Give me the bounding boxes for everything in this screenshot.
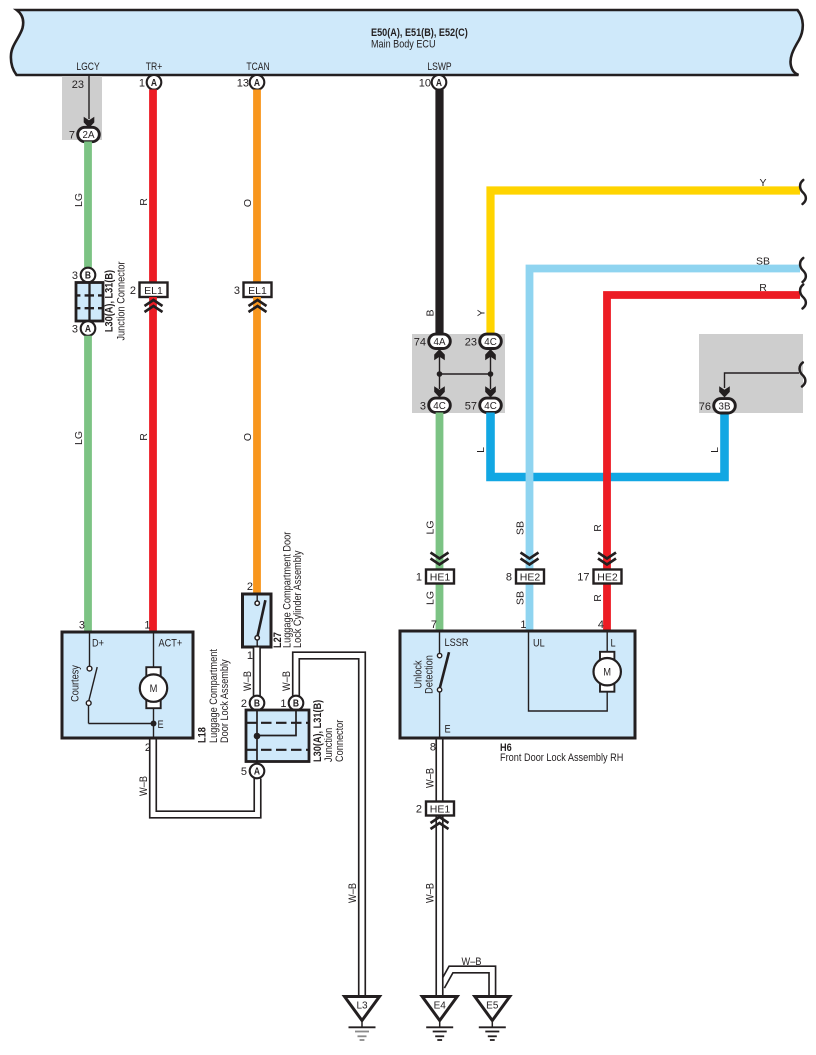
svg-text:23: 23 <box>72 79 84 91</box>
wire R upper <box>149 90 157 284</box>
component box L18 <box>62 632 193 738</box>
stems and crossbar <box>440 355 491 389</box>
svg-text:1: 1 <box>144 620 150 632</box>
svg-text:L: L <box>611 638 616 650</box>
connector EL1 red <box>140 283 168 298</box>
svg-text:2: 2 <box>130 285 136 297</box>
connector oval 3B <box>714 399 736 413</box>
ECU banner Main Body ECU <box>11 10 803 75</box>
chevrons HE2 <box>521 553 539 565</box>
shield gray box LGCY <box>62 76 102 140</box>
svg-text:R: R <box>592 594 604 602</box>
svg-text:LG: LG <box>425 520 437 534</box>
svg-text:2A: 2A <box>83 130 95 141</box>
svg-text:SB: SB <box>515 591 527 605</box>
svg-text:W–B: W–B <box>425 883 437 903</box>
svg-text:B: B <box>424 309 436 316</box>
arrow down LGCY <box>84 117 95 128</box>
connector circle B <box>81 268 96 283</box>
svg-text:TR+: TR+ <box>146 61 163 73</box>
svg-text:W–B: W–B <box>425 768 437 788</box>
svg-text:1: 1 <box>280 698 286 710</box>
arrow down 3B <box>719 386 730 397</box>
svg-text:Detection: Detection <box>424 655 436 694</box>
svg-text:Y: Y <box>475 309 487 316</box>
ground E5 <box>475 997 510 1041</box>
svg-text:74: 74 <box>414 336 426 348</box>
arrow up left <box>434 349 445 360</box>
wire O upper <box>253 90 261 284</box>
junction dot E <box>151 721 157 727</box>
break squiggle R <box>800 285 806 309</box>
svg-text:3: 3 <box>234 285 240 297</box>
wire W-B L27 to B <box>253 648 261 697</box>
svg-text:2: 2 <box>145 742 151 754</box>
svg-text:B: B <box>293 698 299 709</box>
chevrons HE1 lower <box>431 817 449 829</box>
svg-text:R: R <box>138 198 150 206</box>
connector circle A TCAN <box>250 75 265 90</box>
svg-text:5: 5 <box>241 766 247 778</box>
svg-text:4C: 4C <box>433 401 445 412</box>
svg-text:R: R <box>138 433 150 441</box>
junction dot <box>254 733 261 740</box>
svg-text:1: 1 <box>520 619 526 631</box>
shield gray box right <box>699 334 803 413</box>
svg-text:HE1: HE1 <box>430 804 451 816</box>
svg-text:8: 8 <box>430 742 436 754</box>
svg-text:B: B <box>254 698 260 709</box>
junction dot right <box>488 371 494 377</box>
connector HE2 <box>516 570 544 584</box>
svg-text:3: 3 <box>420 400 426 412</box>
svg-text:LGCY: LGCY <box>76 61 100 73</box>
connector circle B left <box>250 696 265 711</box>
svg-text:17: 17 <box>577 572 589 584</box>
svg-text:8: 8 <box>506 572 512 584</box>
svg-text:W–B: W–B <box>138 776 150 796</box>
connector circle A TR+ <box>147 75 162 90</box>
svg-text:L30(A), L31(B): L30(A), L31(B) <box>104 270 116 332</box>
connector oval 2A <box>78 127 100 141</box>
svg-text:M: M <box>603 667 611 679</box>
motor M L18 <box>140 633 167 739</box>
connector EL1 orange <box>244 283 272 298</box>
wire R lower <box>149 297 157 632</box>
svg-text:SB: SB <box>515 521 527 535</box>
svg-text:A: A <box>254 77 260 88</box>
svg-text:7: 7 <box>69 130 75 142</box>
svg-text:W–B: W–B <box>281 671 293 691</box>
chevrons HE1 <box>431 553 449 565</box>
svg-text:E4: E4 <box>434 1001 447 1012</box>
svg-text:7: 7 <box>431 619 437 631</box>
arrow down right <box>485 386 496 397</box>
svg-text:Connector: Connector <box>334 719 346 762</box>
svg-text:13: 13 <box>237 78 249 90</box>
svg-text:M: M <box>150 683 158 695</box>
connector oval 4C top right <box>480 334 502 348</box>
svg-text:L18: L18 <box>197 727 209 743</box>
svg-text:2: 2 <box>241 698 247 710</box>
svg-text:W–B: W–B <box>347 883 359 903</box>
svg-text:E5: E5 <box>486 1001 499 1012</box>
svg-text:E50(A), E51(B), E52(C): E50(A), E51(B), E52(C) <box>371 27 468 39</box>
svg-text:2: 2 <box>416 804 422 816</box>
svg-text:10: 10 <box>419 78 431 90</box>
svg-text:W–B: W–B <box>242 671 254 691</box>
svg-text:ACT+: ACT+ <box>159 638 183 650</box>
svg-text:HE2: HE2 <box>520 572 541 584</box>
chevrons EL1 orange <box>249 300 267 312</box>
connector HE2 right <box>594 570 622 584</box>
svg-text:D+: D+ <box>92 638 104 650</box>
break squiggle right box <box>800 363 806 387</box>
connector oval 4C bottom left <box>429 398 451 412</box>
svg-text:Y: Y <box>759 177 766 189</box>
wire LG upper <box>84 142 92 269</box>
junction connector L30 L31 bottom <box>246 710 309 764</box>
svg-text:Junction Connector: Junction Connector <box>116 261 128 341</box>
component box L27 lock cylinder switch <box>243 594 272 647</box>
svg-text:LSWP: LSWP <box>427 61 452 73</box>
svg-text:Front Door Lock Assembly RH: Front Door Lock Assembly RH <box>500 752 623 764</box>
arrow up right <box>485 349 496 360</box>
svg-text:A: A <box>151 77 157 88</box>
wire W-B H6 pin8 down to E4 <box>435 740 443 996</box>
chevrons EL1 red <box>145 300 163 312</box>
svg-text:O: O <box>242 199 254 207</box>
svg-text:EL1: EL1 <box>144 285 163 297</box>
break squiggle Y <box>800 180 806 204</box>
svg-text:HE2: HE2 <box>597 572 618 584</box>
svg-text:TCAN: TCAN <box>246 61 269 73</box>
component box H6 <box>400 631 635 738</box>
connector oval 4C bottom right <box>480 398 502 412</box>
switch courtesy <box>86 633 153 724</box>
svg-text:L: L <box>709 447 721 453</box>
svg-text:Door Lock Assembly: Door Lock Assembly <box>219 659 231 743</box>
svg-text:E: E <box>158 719 164 731</box>
svg-text:O: O <box>242 433 254 441</box>
junction dot left <box>437 371 443 377</box>
svg-text:SB: SB <box>756 255 770 267</box>
svg-text:Courtesy: Courtesy <box>70 664 82 702</box>
wire LG middle <box>436 413 444 632</box>
svg-text:LSSR: LSSR <box>445 637 469 649</box>
svg-text:A: A <box>254 766 260 777</box>
svg-text:23: 23 <box>465 336 477 348</box>
chevrons HE2 right <box>598 553 616 565</box>
svg-text:EL1: EL1 <box>248 285 267 297</box>
svg-text:B: B <box>85 270 91 281</box>
svg-text:R: R <box>592 524 604 532</box>
svg-text:W–B: W–B <box>462 956 482 968</box>
ground L3 <box>345 997 380 1041</box>
svg-text:Main Body ECU: Main Body ECU <box>371 39 436 51</box>
thin wire in right box <box>725 373 800 388</box>
wire W-B L18 to junction A <box>153 740 258 815</box>
arrow down left <box>434 386 445 397</box>
svg-text:4: 4 <box>598 619 604 631</box>
svg-text:76: 76 <box>699 401 711 413</box>
svg-text:UL: UL <box>533 638 545 650</box>
svg-text:4C: 4C <box>484 337 496 348</box>
wire LG lower <box>84 336 92 632</box>
svg-text:LG: LG <box>73 193 85 207</box>
svg-text:4C: 4C <box>484 401 496 412</box>
wire SB skyblue <box>530 269 801 632</box>
svg-text:Lock Cylinder Assembly: Lock Cylinder Assembly <box>292 550 304 648</box>
svg-text:LG: LG <box>73 431 85 445</box>
connector circle A bottom <box>250 764 265 779</box>
break squiggle SB <box>800 258 806 282</box>
svg-text:R: R <box>759 282 767 294</box>
svg-text:L: L <box>475 447 487 453</box>
connector oval 4A <box>429 334 451 348</box>
connector HE1 <box>426 570 454 584</box>
svg-text:1: 1 <box>247 650 253 662</box>
svg-text:3: 3 <box>72 324 78 336</box>
wire O lower <box>253 297 261 594</box>
svg-text:L3: L3 <box>356 1001 368 1012</box>
motor M H6 <box>594 633 621 692</box>
svg-text:3: 3 <box>72 270 78 282</box>
connector circle B right <box>289 696 304 711</box>
svg-text:E: E <box>445 724 451 736</box>
connector circle A LSWP <box>432 75 447 90</box>
wire W-B branch to E5 <box>442 970 493 996</box>
svg-text:A: A <box>85 323 91 334</box>
wire W-B B1 up right down to L3 <box>296 656 362 996</box>
svg-text:57: 57 <box>465 400 477 412</box>
svg-text:LG: LG <box>425 591 437 605</box>
wire L blue <box>491 413 725 478</box>
wire B black <box>435 90 443 335</box>
svg-text:2: 2 <box>247 581 253 593</box>
shield gray box middle <box>412 334 505 413</box>
wire thin LGCY <box>88 76 90 119</box>
svg-text:A: A <box>436 77 442 88</box>
svg-text:HE1: HE1 <box>430 572 451 584</box>
connector circle A <box>81 321 96 336</box>
ground E4 <box>422 997 457 1041</box>
wire Y yellow <box>491 191 801 335</box>
svg-text:1: 1 <box>139 78 145 90</box>
thin wire UL to motor <box>529 633 608 712</box>
switch unlock detection <box>437 633 449 739</box>
svg-text:3: 3 <box>79 620 85 632</box>
svg-text:3B: 3B <box>719 401 731 412</box>
connector HE1 lower <box>426 802 454 816</box>
wire R right <box>607 295 800 631</box>
svg-text:4A: 4A <box>434 337 446 348</box>
svg-text:1: 1 <box>416 572 422 584</box>
junction connector L30/L31 grid <box>76 283 103 322</box>
